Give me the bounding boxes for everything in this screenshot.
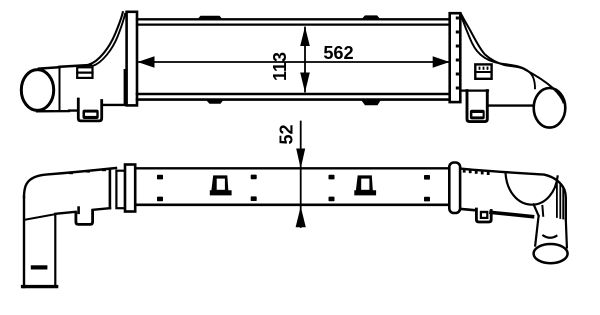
left hose top edge bbox=[24, 168, 116, 197]
right coupling capsule bbox=[449, 163, 460, 214]
right neck outer curve bbox=[461, 14, 564, 103]
52 down arrowhead bbox=[296, 149, 305, 169]
top tick 2 bbox=[362, 15, 381, 19]
right hose top edge and outer bend bbox=[461, 169, 566, 219]
52 up arrowhead bbox=[296, 207, 306, 228]
left downpipe left edge bbox=[23, 197, 25, 287]
right elbow inner arc bbox=[506, 173, 558, 205]
bottom tick 2 bbox=[362, 101, 381, 106]
left hose tab bbox=[77, 208, 80, 213]
right hose bottom slant 1 bbox=[461, 209, 476, 210]
svg-text:113: 113 bbox=[270, 52, 290, 81]
right hose bottom slant 2 bbox=[491, 212, 533, 216]
svg-text:562: 562 bbox=[323, 43, 353, 63]
bar top line bbox=[137, 167, 449, 169]
left bracket inner block bbox=[83, 110, 99, 119]
right downpipe left edge bbox=[535, 216, 538, 246]
562 dim line bbox=[139, 61, 448, 63]
rivet dots bbox=[157, 175, 430, 202]
left coupling outer ring bbox=[125, 165, 135, 212]
right elbow throat lines bbox=[534, 204, 539, 216]
svg-text:52: 52 bbox=[276, 124, 296, 144]
right tank clip bbox=[475, 64, 491, 78]
right downpipe smile mark bbox=[543, 236, 556, 238]
core bottom line 2 bbox=[137, 98, 450, 101]
right plate teeth bbox=[456, 17, 459, 90]
core bottom line 1 bbox=[137, 93, 450, 96]
core top line 1 bbox=[137, 18, 450, 20]
right pipe bottom edge bbox=[489, 104, 534, 106]
right bracket inner block bbox=[470, 110, 485, 120]
left coupling hose end bbox=[109, 170, 112, 209]
left neck outer curve bbox=[89, 12, 123, 65]
right hose bracket bbox=[476, 209, 491, 222]
right neck inner curve bbox=[460, 14, 535, 88]
left tank bottom left segment bbox=[37, 109, 78, 112]
113 dim line bbox=[304, 28, 306, 92]
left neck inner curve bbox=[93, 14, 126, 66]
left header plate bbox=[127, 12, 137, 106]
left pipe opening ellipse bbox=[21, 70, 53, 111]
562 left arrowhead bbox=[138, 56, 155, 68]
left hose bottom slant inside pipe bbox=[24, 214, 55, 220]
right header plate bbox=[450, 13, 461, 102]
52 dim line bbox=[300, 122, 302, 228]
right tank bottom edge bbox=[461, 89, 489, 91]
left tank right wall bbox=[124, 70, 126, 105]
left hose edge ticks bbox=[69, 169, 106, 175]
left tank clip bbox=[77, 67, 92, 78]
top tick 1 bbox=[198, 16, 223, 20]
left hose bracket bbox=[76, 210, 93, 224]
right elbow hatch lines bbox=[556, 182, 558, 217]
left pipe top edge bbox=[39, 67, 60, 68]
left downpipe right edge bbox=[54, 215, 56, 287]
left tank top edge bbox=[60, 65, 92, 67]
right bottom bracket bbox=[467, 91, 487, 122]
bar bracket 1 bbox=[210, 175, 232, 195]
right downpipe opening ellipse bbox=[534, 244, 568, 263]
113 up arrowhead bbox=[300, 27, 310, 46]
right hose teeth bbox=[463, 169, 490, 175]
left coupling inner ring bbox=[116, 171, 125, 209]
left tank bottom right segment bbox=[103, 104, 127, 106]
left downpipe bottom cap bbox=[23, 285, 57, 288]
562 right arrowhead bbox=[433, 56, 450, 68]
bar bracket 2 bbox=[354, 175, 376, 195]
bar bottom line bbox=[137, 203, 449, 206]
left hose bottom slant segments bbox=[55, 212, 75, 214]
right pipe opening ellipse bbox=[534, 88, 566, 128]
left pipe flange vertical bbox=[59, 68, 61, 110]
113 down arrowhead bbox=[300, 73, 310, 93]
bottom tick 1 bbox=[207, 101, 224, 104]
left bottom bracket bbox=[78, 99, 101, 121]
core top line 2 bbox=[137, 24, 450, 26]
left downpipe inner dash bbox=[31, 265, 48, 269]
right downpipe right edge bbox=[566, 219, 567, 248]
